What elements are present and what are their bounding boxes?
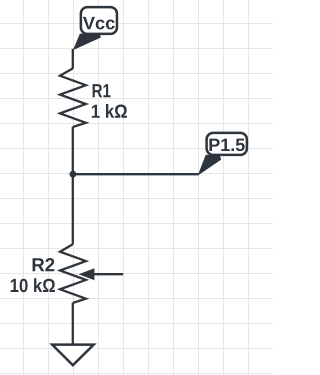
label R2 value 10 kOhm — [11, 278, 55, 292]
node junction dot — [70, 171, 77, 178]
net flag Vcc — [73, 7, 117, 50]
label R2 — [33, 258, 55, 271]
wire from R2 bottom to ground — [72, 303, 74, 345]
wire from node to P1.5 flag — [73, 173, 199, 175]
resistor R1 — [60, 68, 86, 127]
ground — [52, 345, 93, 366]
potentiometer R2 wiper arrow — [79, 268, 124, 280]
net flag P1.5 — [198, 133, 247, 175]
potentiometer R2 — [60, 244, 86, 303]
wire from R1 bottom through node to R2 top — [72, 127, 74, 245]
wire from Vcc flag to R1 top — [72, 49, 74, 69]
label R1 — [93, 84, 111, 97]
label R1 value 1 kOhm — [92, 104, 127, 118]
